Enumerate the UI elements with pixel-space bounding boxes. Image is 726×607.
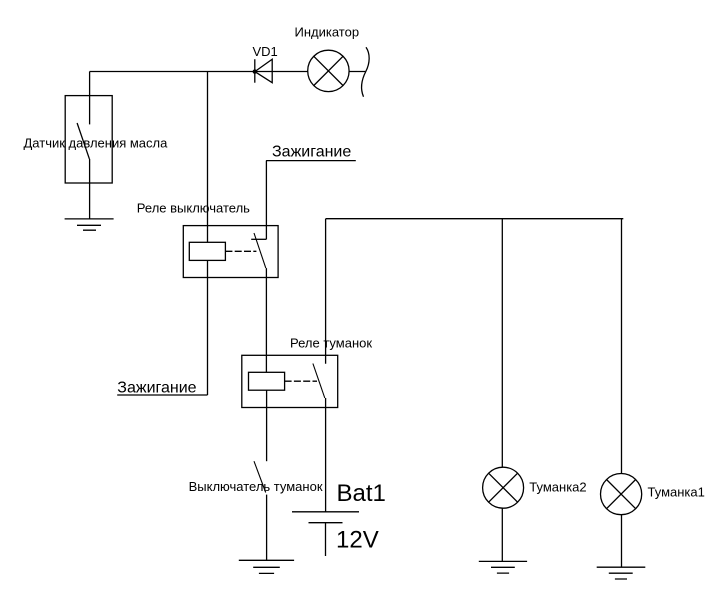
fog relay K2 contact top lead from bus (325, 219, 327, 364)
svg-text:Реле выключатель: Реле выключатель (137, 201, 250, 216)
break squiggle right of indicator (362, 47, 370, 96)
wire top horizontal from oil sensor to indicator lamp (90, 71, 308, 73)
wire ignition top right vertical down to relay K1 contact (265, 161, 267, 240)
lamp Туманка1 circle (601, 474, 642, 515)
svg-text:Индикатор: Индикатор (295, 25, 360, 40)
svg-text:Зажигание: Зажигание (272, 143, 351, 160)
battery Bat1 bottom plate (309, 522, 343, 524)
wire vertical from top wire down to relay coil K1 (207, 72, 209, 243)
ground under oil pressure sensor (65, 219, 114, 230)
fog relay K2 dashed link (285, 380, 317, 382)
wire ignition top right underline (266, 160, 356, 162)
diode VD1 cathode bar (254, 59, 256, 82)
fog relay K2 box (242, 355, 338, 407)
oil pressure sensor box (65, 96, 112, 183)
ground under lamp Туманка2 (479, 561, 527, 573)
wire vertical sensor top lead (89, 72, 91, 125)
svg-text:Туманка1: Туманка1 (648, 484, 705, 499)
wire bus down to lamp Туманка1 (621, 219, 623, 474)
lamp Индикатор cross (314, 56, 343, 85)
ground under fog switch (239, 560, 294, 573)
svg-text:Датчик давления масла: Датчик давления масла (24, 135, 169, 150)
relay K1 dashed link (225, 250, 256, 252)
relay switch K1 box (183, 226, 278, 278)
relay K1 coil (189, 242, 225, 260)
svg-text:Выключатель туманок: Выключатель туманок (189, 479, 323, 494)
svg-text:Bat1: Bat1 (337, 480, 386, 507)
lamp Туманка2 bottom lead (501, 508, 503, 561)
wire lamp supply bus (326, 218, 624, 220)
lamp Индикатор circle (308, 50, 349, 91)
oil pressure sensor bottom lead to ground (89, 159, 91, 219)
svg-text:Реле туманок: Реле туманок (290, 336, 372, 351)
diode VD1 triangle (255, 59, 272, 82)
wire ignition left underline (117, 394, 207, 396)
lamp Туманка2 circle (483, 467, 524, 508)
wire bus down to lamp Туманка2 (501, 219, 503, 468)
wire right of lamp to break squiggle (349, 71, 365, 73)
svg-text:Зажигание: Зажигание (117, 379, 196, 396)
fog relay K2 switch blade (313, 364, 325, 399)
relay K1 switch blade (254, 233, 266, 268)
lamp Туманка2 cross (489, 473, 518, 502)
lamp Туманка1 bottom lead (621, 515, 623, 568)
fog relay K2 coil (249, 372, 285, 390)
lamp Туманка1 cross (607, 480, 636, 509)
relay K1 fixed contact tick (251, 238, 266, 240)
svg-text:Туманка2: Туманка2 (529, 479, 586, 494)
fog relay K2 contact bottom lead to battery (325, 398, 327, 512)
svg-text:VD1: VD1 (253, 44, 278, 59)
battery Bat1 top plate (292, 511, 359, 513)
fog switch blade (254, 461, 266, 492)
relay K1 contact bottom lead down to fog relay coil (265, 268, 267, 372)
node VD1 anode junction dot (253, 69, 257, 73)
battery Bat1 bottom lead (325, 523, 327, 556)
fog switch bottom lead to ground (266, 495, 268, 561)
relay K1 coil bottom lead down to ignition feed (207, 260, 209, 395)
svg-text:12V: 12V (336, 526, 379, 553)
ground under lamp Туманка1 (597, 567, 646, 579)
oil pressure sensor switch blade (77, 123, 89, 159)
fog relay K2 coil bottom lead down to fog switch (266, 390, 268, 461)
